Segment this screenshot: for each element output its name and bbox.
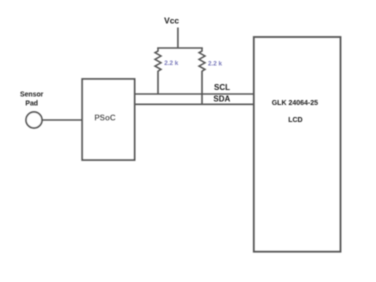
IC U1 PSoC box	[82, 79, 134, 160]
wire R1 to SCL	[157, 71, 159, 94]
sensor pad terminal circle	[26, 112, 42, 128]
resistor R1	[155, 48, 161, 71]
svg-text:2.2 k: 2.2 k	[164, 60, 179, 67]
wire R2 to SDA	[201, 71, 203, 105]
wire sensor pad to PSoC	[42, 119, 82, 121]
wire pull-up bar	[157, 47, 203, 49]
svg-text:Vcc: Vcc	[164, 16, 179, 26]
svg-text:GLK 24064-25: GLK 24064-25	[272, 100, 318, 107]
resistor R2	[199, 48, 205, 71]
module GLK 24064-25 LCD box	[254, 37, 341, 252]
wire SCL net	[135, 93, 255, 95]
wire Vcc stem	[177, 28, 179, 49]
svg-text:Sensor: Sensor	[20, 92, 44, 99]
svg-text:SCL: SCL	[214, 83, 230, 92]
svg-text:2.2 k: 2.2 k	[208, 61, 223, 68]
svg-text:SDA: SDA	[213, 94, 230, 103]
wire SDA net	[135, 103, 255, 105]
svg-text:PSoC: PSoC	[94, 114, 116, 123]
svg-text:Pad: Pad	[25, 100, 38, 107]
svg-text:LCD: LCD	[288, 117, 302, 124]
